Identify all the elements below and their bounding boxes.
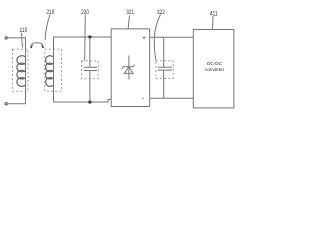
inductor L1 primary coil 110 <box>17 56 26 87</box>
wire top input <box>7 38 25 104</box>
wire bottom input <box>7 103 25 105</box>
terminal T1 (top input) <box>5 37 7 39</box>
inductor L2 secondary coil 210 <box>46 56 54 87</box>
zener diode D1 <box>122 56 134 80</box>
svg-text:+: + <box>142 35 146 42</box>
svg-text:converter: converter <box>205 67 224 73</box>
label 110 <box>20 28 28 48</box>
node dot bottom (cap 220 junction) <box>88 100 91 103</box>
dashed box 322 <box>156 61 173 79</box>
svg-text:DC-DC: DC-DC <box>207 61 222 67</box>
label 210 <box>45 10 55 40</box>
svg-text:-: - <box>142 95 144 102</box>
dashed box 110 <box>13 49 29 91</box>
capacitor C1 220 <box>84 37 97 102</box>
terminal T2 (bottom input) <box>5 103 7 105</box>
wire rectifier to DC-DC bottom <box>150 97 194 99</box>
wire rectifier to DC-DC top <box>150 36 194 38</box>
wire secondary top <box>54 37 112 102</box>
svg-text:110: 110 <box>20 28 28 34</box>
rectifier box U1 321 <box>111 29 150 107</box>
DC-DC converter box U2 411 <box>193 30 234 108</box>
label 322 <box>154 10 165 61</box>
node dot top (cap 220 junction) <box>88 35 91 38</box>
svg-text:210: 210 <box>47 10 55 16</box>
label 321 <box>126 10 134 29</box>
svg-text:322: 322 <box>157 10 165 16</box>
capacitor C2 322 <box>158 37 172 98</box>
dashed box 220 <box>82 61 99 79</box>
label 220 <box>81 10 89 61</box>
label 411 <box>210 11 218 29</box>
wire secondary bottom <box>54 100 112 103</box>
coupling arc <box>30 43 44 49</box>
svg-text:411: 411 <box>210 11 218 17</box>
dashed box 210 <box>45 49 62 91</box>
svg-text:321: 321 <box>126 10 134 16</box>
